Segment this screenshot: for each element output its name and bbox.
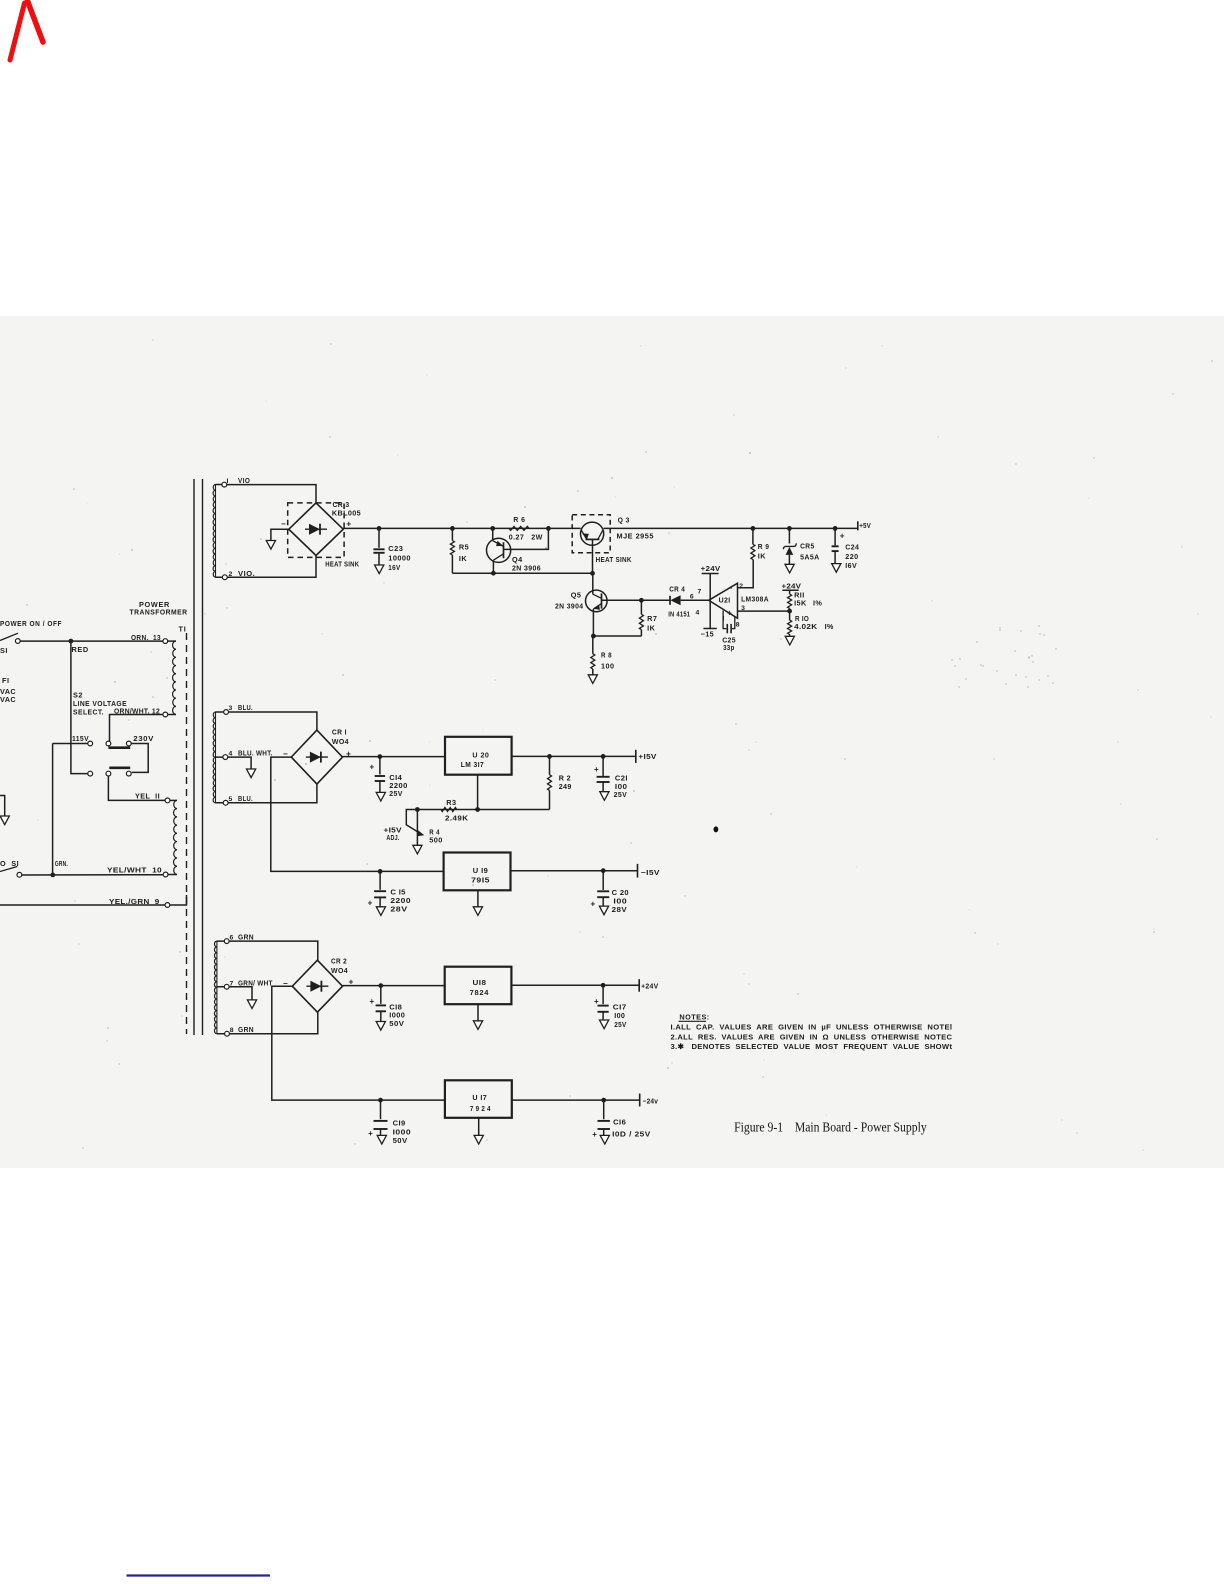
ground U19 xyxy=(473,907,482,916)
secondary winding 1 (VIO) xyxy=(213,485,215,578)
-24V terminal xyxy=(639,1094,641,1107)
label plus C21 xyxy=(594,765,599,774)
terminal sec pin 8 xyxy=(225,1031,230,1036)
svg-text:8: 8 xyxy=(736,622,740,629)
label minus CR1 xyxy=(283,750,288,759)
label YEL./GRN 9 xyxy=(109,897,160,906)
label 1K R9 xyxy=(758,552,766,561)
label 115V xyxy=(72,734,89,743)
label 1000 C18 xyxy=(389,1011,405,1020)
svg-text:GRN: GRN xyxy=(238,933,254,942)
ground U17 xyxy=(474,1135,483,1144)
svg-text:0.27 2W: 0.27 2W xyxy=(509,533,543,542)
terminal sec pin 7 xyxy=(224,984,229,989)
label 7 GRN/WHT xyxy=(230,979,273,988)
wire U18 out xyxy=(511,984,639,986)
svg-text:5A5A: 5A5A xyxy=(800,553,820,562)
junction R7 top xyxy=(639,598,644,603)
ground C16 xyxy=(600,1135,609,1144)
switch S1 xyxy=(0,633,20,643)
label 28V C15 xyxy=(390,905,407,914)
svg-text:RED: RED xyxy=(72,645,89,654)
wire ADJ rail xyxy=(417,809,549,811)
notes heading xyxy=(679,1013,710,1022)
label RED xyxy=(72,645,89,654)
svg-text:25V: 25V xyxy=(614,1020,627,1029)
label T1 xyxy=(179,625,187,634)
junction C18 xyxy=(378,983,383,988)
svg-text:CR 2: CR 2 xyxy=(331,957,347,966)
svg-text:I00: I00 xyxy=(614,1011,625,1020)
junction R6 right xyxy=(546,526,551,531)
label plus C16 xyxy=(592,1130,597,1139)
label +15V ADJ xyxy=(384,826,402,843)
svg-text:2N 3904: 2N 3904 xyxy=(555,602,584,611)
ground C21 xyxy=(600,792,609,801)
label +5V xyxy=(859,521,871,530)
+15V terminal xyxy=(635,750,637,763)
label 100 C21 xyxy=(615,782,628,791)
regulator U20 LM317 xyxy=(445,737,512,775)
svg-text:+: + xyxy=(370,997,375,1006)
S2 contacts top row xyxy=(88,741,131,746)
svg-text:VIO: VIO xyxy=(238,476,250,485)
label 16V xyxy=(388,563,400,572)
svg-text:50V: 50V xyxy=(393,1136,408,1145)
ground R8 xyxy=(588,675,597,684)
label 4.02K xyxy=(794,622,818,631)
wire CR2 plus to U18 xyxy=(343,985,445,987)
label WO4 CR2 xyxy=(331,966,349,975)
label C18 xyxy=(389,1002,402,1011)
diode CR5 5A5A xyxy=(783,528,796,564)
svg-text:7: 7 xyxy=(698,588,702,595)
wire pin4 to ground xyxy=(216,757,252,769)
label 220 xyxy=(845,552,858,561)
wire S1 to T1 pin13 xyxy=(20,640,163,642)
resistor R2 xyxy=(548,756,552,809)
svg-text:I.ALL CAP. VALUES ARE GIVE: I.ALL CAP. VALUES ARE GIVEN IN µF UNLESS… xyxy=(671,1023,953,1032)
red pen stroke 1 xyxy=(10,3,25,60)
svg-text:+24V: +24V xyxy=(641,981,659,990)
label POWER ON / OFF xyxy=(0,619,62,628)
svg-text:−I5V: −I5V xyxy=(641,868,660,877)
wire U17 out xyxy=(512,1099,640,1101)
label C14 xyxy=(389,773,403,782)
svg-text:I6V: I6V xyxy=(845,561,857,570)
label plus C19 xyxy=(368,1129,373,1138)
label 249 xyxy=(559,782,572,791)
wire U21 pin2 to R9 xyxy=(738,560,754,588)
+24V terminal xyxy=(638,979,640,992)
label R3 xyxy=(446,798,456,807)
capacitor C17 xyxy=(598,985,609,1020)
svg-text:I5K: I5K xyxy=(794,599,807,608)
capacitor C19 xyxy=(374,1100,388,1135)
label VAC lower xyxy=(0,695,16,704)
resistor R11 xyxy=(788,590,792,611)
svg-text:YEL./GRN 9: YEL./GRN 9 xyxy=(109,897,160,906)
svg-text:MJE 2955: MJE 2955 xyxy=(617,531,654,540)
S2 contacts bottom row xyxy=(88,771,131,776)
figure caption xyxy=(734,1120,927,1135)
junction R3 left xyxy=(415,807,420,812)
svg-text:+: + xyxy=(840,531,845,540)
ground C14 xyxy=(376,792,385,801)
wire U19 gnd xyxy=(477,890,479,907)
terminal T1 pin 11 xyxy=(165,798,170,803)
ground C18 xyxy=(376,1022,385,1031)
wire pin8 to CR2 bottom xyxy=(217,1012,318,1034)
junction CR5 xyxy=(787,526,792,531)
label CR5 xyxy=(800,542,815,551)
svg-text:CI9: CI9 xyxy=(393,1119,406,1128)
label 7915 xyxy=(471,875,490,884)
label plus C18 xyxy=(370,997,375,1006)
label C16 xyxy=(613,1118,626,1127)
label pin 2 xyxy=(739,583,743,590)
svg-text:+5V: +5V xyxy=(859,521,871,530)
label 7924 xyxy=(470,1104,491,1113)
svg-text:POWER ON / OFF: POWER ON / OFF xyxy=(0,619,62,628)
+24V bar U21 xyxy=(702,573,719,575)
label 2200 C15 xyxy=(390,896,411,905)
ground primary xyxy=(0,796,9,825)
label HEAT SINK CR3 xyxy=(325,560,359,569)
wire 5V rail xyxy=(343,527,858,529)
svg-text:CR5: CR5 xyxy=(800,542,815,551)
label 2.49K xyxy=(445,813,469,822)
label 1K R5 xyxy=(459,554,468,563)
label plus C24 xyxy=(840,531,845,540)
label 28V C20 xyxy=(612,905,628,914)
label TO SI xyxy=(0,859,19,868)
svg-text:+I5V: +I5V xyxy=(638,752,656,761)
label ORN. 13 xyxy=(131,633,161,642)
label 1% R10 xyxy=(825,622,834,631)
wire U20 adj xyxy=(477,775,479,810)
svg-text:GRN.: GRN. xyxy=(55,859,68,868)
svg-text:10000: 10000 xyxy=(388,553,411,562)
label pin 7 xyxy=(698,588,702,595)
label R9 xyxy=(758,542,770,551)
svg-text:VAC: VAC xyxy=(0,695,16,704)
label Q5 xyxy=(571,591,582,600)
resistor R10 xyxy=(788,611,792,636)
junction R9 top xyxy=(751,526,756,531)
svg-text:ADJ.: ADJ. xyxy=(386,833,399,842)
capacitor C21 xyxy=(597,756,610,791)
svg-text:25V: 25V xyxy=(614,790,628,799)
svg-text:+: + xyxy=(346,518,351,528)
svg-text:WO4: WO4 xyxy=(331,966,349,975)
label plus CR2 xyxy=(349,977,354,987)
label 1 VIO xyxy=(227,476,251,485)
label LM308A xyxy=(741,594,769,603)
wire U17 gnd xyxy=(478,1118,480,1136)
svg-text:25V: 25V xyxy=(389,789,403,798)
label C15 xyxy=(390,887,405,896)
terminal T1 pin 12 xyxy=(163,712,168,717)
label 4 BLU WHT xyxy=(229,749,273,758)
wire CR1 minus down xyxy=(271,757,444,871)
svg-text:+: + xyxy=(594,997,599,1006)
capacitor C20 xyxy=(597,871,609,906)
svg-text:U2I: U2I xyxy=(719,595,731,604)
ground R4 xyxy=(413,845,422,854)
junction pin3 node xyxy=(787,609,792,614)
regulator U18 7824 xyxy=(445,967,512,1005)
resistor R6 xyxy=(509,526,529,530)
svg-text:NOTES:: NOTES: xyxy=(679,1013,709,1022)
wire RED vertical xyxy=(71,641,88,774)
label -15 xyxy=(701,630,714,639)
junction C21 xyxy=(601,754,606,759)
transistor Q4 2N3906 xyxy=(487,528,511,573)
svg-text:+: + xyxy=(592,1130,597,1139)
svg-text:IN 4151: IN 4151 xyxy=(668,610,690,619)
label HEAT SINK Q3 xyxy=(596,555,632,564)
svg-text:+: + xyxy=(368,899,373,908)
label LM 317 xyxy=(461,760,485,769)
label 0.27 2W xyxy=(509,533,543,542)
svg-text:−15: −15 xyxy=(701,630,714,639)
svg-text:LM308A: LM308A xyxy=(741,594,769,603)
svg-text:3.✱ DENOTES SELECTED VALUE: 3.✱ DENOTES SELECTED VALUE MOST FREQUENT… xyxy=(671,1042,953,1051)
terminal T1 pin 10 xyxy=(163,872,168,877)
svg-text:O SI: O SI xyxy=(0,859,19,868)
label C25 xyxy=(722,636,736,645)
label WO4 CR1 xyxy=(332,737,350,746)
terminal sec pin 6 xyxy=(224,939,229,944)
svg-text:U I7: U I7 xyxy=(472,1093,487,1102)
heat sink dashed box Q3 xyxy=(572,515,610,553)
wire pin7 to ground xyxy=(217,987,252,1000)
transformer core double line xyxy=(194,479,203,1035)
ground center tap BLU xyxy=(247,769,256,778)
svg-text:4: 4 xyxy=(696,610,700,617)
label -15V xyxy=(641,868,660,877)
svg-text:115V: 115V xyxy=(72,734,89,743)
wire pin3 to CR1 top xyxy=(216,712,317,730)
label YEL. 11 xyxy=(135,792,160,801)
label R7 xyxy=(647,614,657,623)
label 2N3904 xyxy=(555,602,584,611)
label 50V C18 xyxy=(389,1019,404,1028)
ground C19 xyxy=(377,1135,386,1144)
svg-text:I%: I% xyxy=(825,622,834,631)
svg-text:CI6: CI6 xyxy=(613,1118,626,1127)
wire U20 out xyxy=(512,755,636,757)
svg-text:R7: R7 xyxy=(647,614,657,623)
svg-text:IK: IK xyxy=(647,624,656,633)
svg-text:+: + xyxy=(594,765,599,774)
label 100/25V C16 xyxy=(612,1130,651,1139)
svg-text:−: − xyxy=(728,584,733,593)
label Q4 xyxy=(512,555,523,564)
S2 shorting bar bottom xyxy=(109,766,130,769)
label 2200 C14 xyxy=(389,781,408,790)
label 10000 xyxy=(388,553,411,562)
wire R7 bottom to Q5 emitter xyxy=(593,635,641,637)
junction C17 xyxy=(601,983,606,988)
terminal T1 pin 9 xyxy=(165,903,170,908)
svg-text:CR 4: CR 4 xyxy=(669,585,685,594)
svg-text:5: 5 xyxy=(229,796,233,803)
wire pin6 to CR2 top xyxy=(217,941,318,960)
label plus CR1 xyxy=(346,749,351,759)
label 25V C14 xyxy=(389,789,403,798)
svg-text:2.49K: 2.49K xyxy=(445,813,469,822)
potentiometer R4 xyxy=(406,810,424,846)
label 3 BLU xyxy=(229,703,254,712)
svg-text:7 9 2 4: 7 9 2 4 xyxy=(470,1104,491,1113)
label 15K xyxy=(794,599,807,608)
svg-text:U I9: U I9 xyxy=(473,866,488,875)
label R8 xyxy=(601,651,612,660)
wire pin12 to S2 xyxy=(110,715,164,742)
junction C16 xyxy=(601,1098,606,1103)
svg-text:TI: TI xyxy=(179,625,187,634)
svg-text:C24: C24 xyxy=(845,543,860,552)
label pin 1 xyxy=(723,616,725,623)
U21 power rail line xyxy=(709,574,711,629)
svg-text:C23: C23 xyxy=(388,544,403,553)
regulator U17 7924 xyxy=(445,1080,512,1118)
svg-text:33p: 33p xyxy=(723,643,735,652)
label Q3 xyxy=(618,516,630,525)
label 5 BLU xyxy=(229,794,254,803)
junction R2 top xyxy=(547,754,552,759)
svg-text:+24V: +24V xyxy=(701,564,721,573)
label VAC upper xyxy=(0,687,16,696)
svg-text:2N 3906: 2N 3906 xyxy=(512,564,541,573)
svg-text:R5: R5 xyxy=(459,543,469,552)
svg-text:SI: SI xyxy=(0,646,8,655)
transformer core dashed line (primary side) xyxy=(186,633,188,1034)
label C23 xyxy=(388,544,403,553)
svg-text:BLU.: BLU. xyxy=(238,794,253,803)
label CR4 xyxy=(669,585,685,594)
wire CR2 minus down xyxy=(272,986,445,1100)
wire lower rail q4 xyxy=(452,572,592,574)
resistor R7 xyxy=(639,600,643,636)
op-amp U21 LM308A xyxy=(709,583,738,618)
label pin 3 xyxy=(741,605,745,612)
wire Q5 base to R7 xyxy=(602,599,642,601)
junction RED node xyxy=(69,639,74,644)
terminal sec pin 2 xyxy=(222,575,227,580)
junction C24 xyxy=(833,526,838,531)
capacitor C23 xyxy=(373,528,384,565)
junction ADJ xyxy=(475,807,480,812)
junction Q4 collector bottom xyxy=(491,571,496,576)
label plus C15 xyxy=(368,899,373,908)
svg-text:R 6: R 6 xyxy=(513,515,525,524)
svg-text:IK: IK xyxy=(758,552,766,561)
label C24 xyxy=(845,543,860,552)
resistor R8 xyxy=(591,636,595,675)
label 2 VIO xyxy=(229,569,256,578)
svg-text:Q5: Q5 xyxy=(571,591,582,600)
blue underline (link artifact) xyxy=(127,1574,271,1576)
wire CR1 plus to U20 xyxy=(343,756,446,758)
svg-text:6: 6 xyxy=(690,594,694,601)
label 1000 C19 xyxy=(393,1127,412,1136)
wire S2 right U xyxy=(131,744,148,773)
label 6 GRN xyxy=(230,933,255,942)
svg-text:−: − xyxy=(281,519,286,528)
label -24V xyxy=(643,1097,659,1106)
label 25V C17 xyxy=(614,1020,627,1029)
svg-text:79I5: 79I5 xyxy=(471,875,490,884)
label 33p xyxy=(723,643,735,652)
terminal sec pin 1 xyxy=(222,482,227,487)
junction C20 xyxy=(601,868,606,873)
wire S2 to YEL 11 xyxy=(108,776,165,800)
label 100 C17 xyxy=(614,1011,625,1020)
secondary winding 3 (GRN) xyxy=(214,941,216,1034)
label GRN. xyxy=(55,859,68,868)
ground C23 xyxy=(375,565,384,574)
svg-text:YEL II: YEL II xyxy=(135,792,160,801)
label R2 xyxy=(559,774,571,783)
junction C15 xyxy=(378,869,383,874)
label KBL005 xyxy=(332,509,361,518)
regulator U19 7915 xyxy=(444,853,511,891)
note 2 xyxy=(671,1032,953,1041)
wire Q3 base to Q5 xyxy=(592,573,594,590)
terminal sec pin 5 xyxy=(223,800,228,805)
terminal T1 pin 13 xyxy=(163,639,168,644)
resistor R5 xyxy=(450,528,454,573)
svg-text:LM 3I7: LM 3I7 xyxy=(461,760,485,769)
wire pin9 stub xyxy=(170,895,187,905)
svg-text:+24V: +24V xyxy=(782,582,802,591)
label 25V C21 xyxy=(614,790,628,799)
wire pin2 to CR3 bottom xyxy=(216,556,317,578)
ink blob xyxy=(714,826,719,832)
note 3 xyxy=(671,1042,953,1051)
wire pin1 to CR3 top xyxy=(216,485,317,503)
label plus C20 xyxy=(591,900,596,909)
label U18 xyxy=(473,978,487,987)
label S2 LINE VOLTAGE SELECT. xyxy=(73,691,127,717)
wire U21 pin3 out xyxy=(738,610,790,612)
label 1% R11 xyxy=(813,599,822,608)
svg-text:I0D / 25V: I0D / 25V xyxy=(612,1130,651,1139)
svg-text:TRANSFORMER: TRANSFORMER xyxy=(130,608,188,617)
svg-text:230V: 230V xyxy=(133,734,154,743)
ground R10 xyxy=(785,636,794,645)
bridge rectifier CR3 xyxy=(289,503,343,556)
+5V terminal xyxy=(857,521,859,530)
svg-text:SELECT.: SELECT. xyxy=(73,708,104,717)
svg-text:+: + xyxy=(591,900,596,909)
label 100 C20 xyxy=(613,896,627,905)
label pin 8 xyxy=(736,622,740,629)
capacitor C16 xyxy=(598,1100,610,1135)
ground C24 xyxy=(832,564,841,573)
svg-text:2.ALL RES. VALUES ARE GIVE: 2.ALL RES. VALUES ARE GIVEN IN Ω UNLESS … xyxy=(671,1032,953,1041)
svg-text:Figure 9-1 Main Board - Pow: Figure 9-1 Main Board - Power Supply xyxy=(734,1120,927,1135)
svg-text:+: + xyxy=(370,763,375,772)
svg-text:U 20: U 20 xyxy=(472,751,489,760)
svg-text:HEAT SINK: HEAT SINK xyxy=(596,555,632,564)
bridge rectifier CR2 xyxy=(292,960,342,1012)
svg-text:ORN. 13: ORN. 13 xyxy=(131,633,161,642)
label +24V U21 xyxy=(701,564,721,573)
